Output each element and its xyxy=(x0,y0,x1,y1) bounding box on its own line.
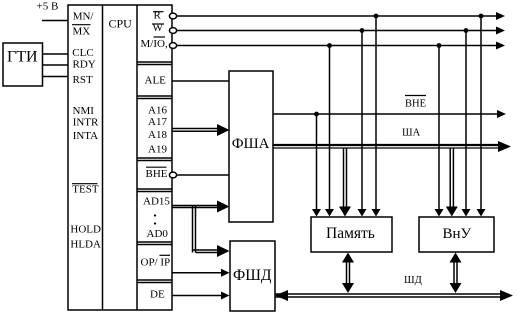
svg-text:A18: A18 xyxy=(148,129,167,141)
svg-text:CLC: CLC xyxy=(72,47,93,59)
memory block Память xyxy=(311,217,392,252)
svg-text:A16: A16 xyxy=(148,105,167,117)
junction dot R-ВнУ xyxy=(479,14,484,19)
bus A16-A19 to ФША xyxy=(172,128,218,130)
overline TEST xyxy=(72,183,98,185)
svg-text:+5 В: +5 В xyxy=(37,1,59,13)
arrowhead W drop into Память xyxy=(358,209,367,217)
wire ГТИ to RST xyxy=(43,76,69,78)
wire BHE pin to ФША xyxy=(177,174,230,176)
separator under AD0 xyxy=(137,241,172,243)
arrowhead bus A16-A19 into ФША xyxy=(217,124,230,136)
svg-text:DE: DE xyxy=(150,288,165,300)
svg-text:OP/ IP: OP/ IP xyxy=(141,257,171,269)
arrowhead R line right xyxy=(496,12,505,20)
bus ВнУ to ШД xyxy=(453,257,455,289)
overline ВНЕ xyxy=(405,95,426,97)
arrowhead ВнУ up to box xyxy=(450,253,462,263)
pin circle R xyxy=(169,13,176,19)
svg-text:AD15: AD15 xyxy=(143,196,170,208)
arrowhead BHE line right xyxy=(497,110,506,118)
junction dot M/IO-Память xyxy=(327,43,332,48)
wire +5V supply to MN/MX xyxy=(42,20,68,22)
svg-text:MN/: MN/ xyxy=(73,11,95,23)
data bus former ФШД xyxy=(230,241,275,311)
separator under OP/IP xyxy=(137,279,172,281)
address bus former ФША xyxy=(229,71,273,222)
svg-text:ГТИ: ГТИ xyxy=(7,49,38,66)
svg-text:ВНЕ: ВНЕ xyxy=(405,99,426,110)
junction dot M/IO-ВнУ xyxy=(437,43,442,48)
wire OP/IP to ФШД xyxy=(172,272,222,274)
CPU divider between pin column and core xyxy=(102,5,104,310)
wire M/IO drop to ВнУ xyxy=(438,46,440,211)
junction dot W-Память xyxy=(360,28,365,33)
pin circle M/IO xyxy=(169,43,176,49)
arrowhead M/IO drop into Память xyxy=(325,209,334,217)
svg-text:ALE: ALE xyxy=(145,75,167,87)
svg-text:HLDA: HLDA xyxy=(70,238,101,250)
junction dot W-ВнУ xyxy=(464,28,469,33)
arrowhead M/IO line right xyxy=(496,42,505,50)
arrowhead W drop into ВнУ xyxy=(462,209,471,217)
svg-text:A17: A17 xyxy=(148,116,167,128)
arrowhead Память up to box xyxy=(342,253,354,263)
dots between AD15 and AD0 xyxy=(154,214,156,216)
arrowhead bus ША right xyxy=(498,141,511,152)
arrowhead R drop into ВнУ xyxy=(477,209,486,217)
wire R output line xyxy=(177,15,498,17)
overline IO xyxy=(154,36,166,38)
bus ШД xyxy=(275,293,501,295)
svg-text:ШД: ШД xyxy=(404,275,422,286)
overline IP xyxy=(160,254,171,256)
bus ША xyxy=(273,144,500,146)
junction dot R-Память xyxy=(374,14,379,19)
clock generator ГТИ xyxy=(3,43,43,86)
bus AD15..AD0 to ФША xyxy=(172,205,218,207)
wire W output line xyxy=(177,30,498,32)
external device block ВнУ xyxy=(419,217,494,252)
svg-text:TEST: TEST xyxy=(72,184,99,196)
overline BHE xyxy=(146,166,167,168)
wire ГТИ to RDY xyxy=(43,64,69,66)
pin circle W xyxy=(169,28,176,34)
arrowhead W line right xyxy=(496,27,505,35)
CPU divider between core and right pin column xyxy=(136,5,138,310)
bus AD branch down xyxy=(192,206,194,253)
wire M/IO drop to Память xyxy=(329,46,331,211)
bus ША drop to ВнУ xyxy=(449,148,451,208)
pin circle BHE xyxy=(169,172,176,178)
wire R drop to Память xyxy=(375,16,377,210)
separator under BHE xyxy=(137,188,172,190)
svg-text:AD0: AD0 xyxy=(147,228,169,240)
svg-text:ФША: ФША xyxy=(232,136,270,152)
svg-text:RDY: RDY xyxy=(73,59,96,71)
svg-text:MX: MX xyxy=(73,25,91,37)
wire ALE to ФША xyxy=(172,80,229,82)
wire BHE output from ФША xyxy=(273,113,499,115)
svg-text:Память: Память xyxy=(326,225,375,242)
svg-text:ВнУ: ВнУ xyxy=(443,226,472,242)
separator under A19 xyxy=(137,157,172,159)
wire ГТИ to CLC xyxy=(43,53,69,55)
svg-text:RST: RST xyxy=(73,74,93,86)
bus AD branch to ФШД xyxy=(193,249,219,251)
svg-text:M/IO,: M/IO, xyxy=(141,38,168,50)
arrowhead ВнУ down to ШД xyxy=(450,283,462,293)
junction dot BHE-Память xyxy=(314,112,319,117)
arrowhead R drop into Память xyxy=(372,209,381,217)
wire DE to ФШД xyxy=(172,295,222,297)
svg-text:ФШД: ФШД xyxy=(233,267,272,284)
arrowhead Память down to ШД xyxy=(342,283,354,293)
wire W drop to Память xyxy=(361,31,363,211)
arrowhead bus ШД right xyxy=(500,290,513,301)
arrowhead BHE drop into Память xyxy=(312,209,321,217)
arrowhead bus ША into Память xyxy=(339,207,351,217)
overline R xyxy=(153,11,164,13)
separator under ALE xyxy=(137,95,172,97)
svg-text:CPU: CPU xyxy=(109,17,133,31)
svg-text:INTA: INTA xyxy=(73,130,98,142)
arrowhead DE into ФШД xyxy=(221,292,230,300)
arrowhead bus AD into ФШД xyxy=(217,245,230,257)
arrowhead bus ШД into ФШД xyxy=(275,290,288,301)
wire W drop to ВнУ xyxy=(465,31,467,211)
arrowhead bus AD into ФША xyxy=(217,201,230,213)
overline W xyxy=(152,23,164,25)
svg-text:HOLD: HOLD xyxy=(70,224,101,236)
svg-text:A19: A19 xyxy=(148,144,167,156)
arrowhead M/IO drop into ВнУ xyxy=(435,209,444,217)
bus Память to ШД xyxy=(346,257,348,289)
bus ША drop to Память xyxy=(343,148,345,208)
separator under control-output group xyxy=(137,61,172,63)
wire M/IO output line xyxy=(177,45,498,47)
arrowhead OP/IP into ФШД xyxy=(221,269,230,277)
CPU U1 outline xyxy=(68,5,172,310)
svg-text:NMI: NMI xyxy=(73,105,95,117)
wire BHE drop to Память xyxy=(316,114,318,210)
svg-text:INTR: INTR xyxy=(73,117,99,129)
svg-text:BHE: BHE xyxy=(146,168,168,180)
overline MX xyxy=(72,24,91,26)
svg-text:ША: ША xyxy=(402,128,421,139)
wire R drop to ВнУ xyxy=(480,16,482,210)
arrowhead bus ША into ВнУ xyxy=(446,207,458,217)
